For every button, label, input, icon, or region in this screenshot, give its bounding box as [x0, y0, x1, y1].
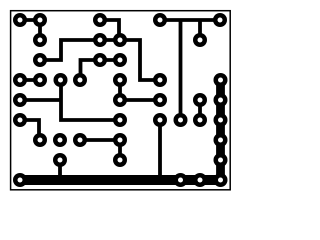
wire (120,100)-(160,100)	[120, 98, 160, 102]
pad (220,140)	[214, 133, 228, 147]
wire T-bar (160,20)-(220,20)	[160, 18, 220, 22]
pad (20,80)	[13, 73, 27, 87]
wire elbow (100,20)-(119,20)-(119,40)	[100, 20, 119, 40]
pad (180.5,120)	[174, 113, 188, 127]
pad (40,140)	[33, 133, 47, 147]
pad (200,100)	[193, 93, 207, 107]
pad (60,160)	[53, 153, 67, 167]
pad (20,20)	[13, 13, 27, 27]
pad (20,180)	[13, 173, 27, 187]
wire stub (60,160)-(60,180)	[58, 160, 62, 180]
wire (20,20)-(40,20)	[20, 18, 40, 22]
pad (40,40)	[33, 33, 47, 47]
pad (60,140)	[53, 133, 67, 147]
wire (100,40)-(61,40)-(61,60)-(40,60)	[40, 40, 100, 60]
pad (100,60)	[93, 53, 107, 67]
pad (40,80)	[33, 73, 47, 87]
wire stub (200,100)-(200,120)	[198, 100, 202, 120]
board outline frame	[11, 11, 231, 190]
pad (20,120)	[13, 113, 27, 127]
pad (220,180)	[214, 173, 228, 187]
pad (220,160)	[214, 153, 228, 167]
pad (20,100)	[13, 93, 27, 107]
pad (160,20)	[153, 13, 167, 27]
pad (160,80)	[153, 73, 167, 87]
pad (100,20)	[93, 13, 107, 27]
pad (220,100)	[214, 93, 228, 107]
wire (20,100)-(61,100)	[20, 98, 61, 102]
pad (80,140)	[73, 133, 87, 147]
wire (120,80)-(120,100)	[118, 80, 122, 100]
pad (200,120)	[193, 113, 207, 127]
wire (100,40)-(120,40)	[100, 38, 120, 42]
pad (80,80)	[73, 73, 87, 87]
pad (120,80)	[113, 73, 127, 87]
wire (120,140)-(120,160)	[118, 140, 122, 160]
pad (220,80)	[214, 73, 228, 87]
wire (40,20)-(40,40)	[38, 20, 42, 40]
wire T-drop (180.5,20)-(180.5,120)	[179, 20, 183, 120]
pad (160,100)	[153, 93, 167, 107]
pad (100,40)	[93, 33, 107, 47]
pad (120,40)	[113, 33, 127, 47]
pad (60,80)	[54, 73, 68, 87]
pad (120,160)	[113, 153, 127, 167]
pad (180,180)	[174, 173, 188, 187]
wire stub (200,20)-(200,40)	[198, 20, 202, 40]
pad (200,180)	[193, 173, 207, 187]
wire (100,60)-(120,60)	[100, 58, 120, 62]
pad (120,100)	[113, 93, 127, 107]
pad (120,140)	[113, 133, 127, 147]
pad (200,40)	[193, 33, 207, 47]
wire thick bottom bus (20,180.5)-(220,180.5)	[20, 175, 220, 185]
pad (220,20)	[213, 13, 227, 27]
pad (220,120)	[214, 113, 228, 127]
wire thick right column (220.5,80)-(220.5,180)	[216, 80, 225, 180]
wire (100,60)-(80.5,60)-(80.5,80)	[81, 60, 101, 80]
wire (80,140)-(120,140)	[80, 138, 120, 142]
pad (40,20)	[33, 13, 47, 27]
wire (120,40)-(140,40)-(140,80)-(160,80)	[120, 40, 160, 80]
wire elbow (20,120)-(39,120)-(39,140)	[20, 120, 39, 140]
wire (20,80)-(40,80)	[20, 78, 40, 82]
pad (120,120)	[113, 113, 127, 127]
pad (160,120)	[153, 113, 167, 127]
pad (40,60)	[33, 53, 47, 67]
pad (120,60)	[113, 53, 127, 67]
wire (60,80)-(61,120)-(120,120)	[61, 80, 121, 120]
wire (160,120)-(160,180)	[158, 120, 162, 180]
